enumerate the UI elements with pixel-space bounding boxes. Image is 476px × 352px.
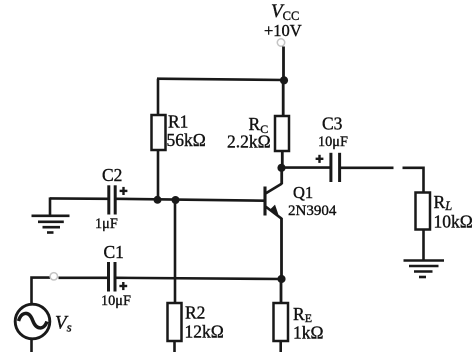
wire R2 vertical from base rail [174, 200, 177, 304]
svg-text:56kΩ: 56kΩ [167, 130, 206, 150]
capacitor C2 [109, 185, 115, 214]
svg-text:C3: C3 [322, 114, 343, 134]
wire emitter down to node [280, 218, 283, 279]
svg-text:2.2kΩ: 2.2kΩ [227, 132, 271, 152]
wire base rail from C2 to Q1 base [117, 199, 265, 201]
resistor RE [274, 303, 289, 341]
wire Vcc vertical down to top rail [282, 47, 285, 81]
svg-text:R2: R2 [185, 303, 205, 323]
wire after gap into corner [403, 168, 424, 193]
C2 polarity plus [120, 187, 128, 195]
svg-text:12kΩ: 12kΩ [185, 322, 224, 342]
Vcc terminal circle [277, 39, 284, 46]
capacitor C3 [331, 153, 340, 182]
svg-text:Q1: Q1 [293, 183, 313, 202]
junction dot R2/base rail [172, 196, 180, 204]
svg-text:C1: C1 [104, 242, 124, 262]
svg-text:R1: R1 [168, 112, 188, 132]
ground at C2 input [32, 216, 70, 233]
wire R2 bottom stub [173, 341, 176, 352]
wire input terminal to C1 [59, 276, 108, 279]
svg-text:2N3904: 2N3904 [288, 203, 337, 219]
resistor R2 [168, 303, 182, 341]
wire ground stub from base rail [49, 197, 52, 215]
svg-text:10μF: 10μF [318, 134, 348, 150]
junction dot R1/base rail [154, 196, 162, 204]
ground under RL [404, 261, 445, 278]
junction dot at Vcc rail [280, 76, 288, 84]
wire collector up to node [280, 168, 283, 184]
svg-text:C2: C2 [102, 165, 122, 185]
resistor RC [275, 116, 289, 151]
wire Vs corner to input terminal [32, 278, 51, 304]
transistor Q1 [265, 184, 282, 219]
svg-text:+10V: +10V [264, 21, 302, 40]
resistor RL [416, 193, 431, 230]
wire Rc bottom lead to collector node [281, 151, 284, 168]
wire base rail left segment to C2 [50, 197, 108, 200]
svg-text:10μF: 10μF [101, 293, 131, 309]
wire collector node to C3 [282, 166, 330, 169]
capacitor C1 [109, 262, 116, 292]
junction dot collector node [277, 164, 285, 172]
source Vs [15, 304, 50, 339]
wire Vcc vertical to Rc [282, 80, 285, 117]
svg-text:1μF: 1μF [95, 216, 118, 232]
svg-text:1kΩ: 1kΩ [293, 323, 324, 343]
C1 polarity plus [119, 282, 127, 290]
wire C3 to load (with scan gap) [341, 167, 394, 170]
wire C1 to emitter node [117, 278, 282, 279]
C3 polarity plus [316, 155, 324, 163]
wire RE bottom stub [279, 341, 282, 352]
junction dot emitter node [277, 275, 285, 283]
wire Vs bottom stub [30, 339, 33, 352]
wire emitter node down to RE [280, 279, 283, 304]
wire RL bottom lead [422, 230, 425, 261]
input terminal circle [50, 273, 57, 280]
svg-text:10kΩ: 10kΩ [434, 212, 473, 232]
wire R1 bottom lead to base rail [157, 150, 160, 200]
wire top rail horizontal [157, 79, 284, 80]
resistor R1 [152, 115, 166, 150]
wire R1 top lead [157, 79, 160, 116]
